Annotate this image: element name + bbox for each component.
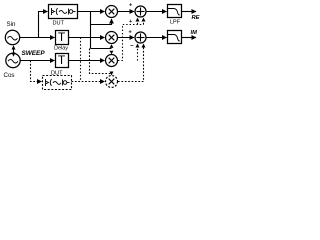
DUT U1 input connector icon — [52, 8, 58, 15]
svg-text:+: + — [129, 19, 132, 25]
svg-text:−: − — [130, 44, 134, 50]
wire branch up to DUT — [39, 12, 48, 38]
wire arrow into S1 bottom left — [137, 21, 139, 25]
wire arrow into S1 bottom right — [143, 21, 145, 25]
svg-text:LPF: LPF — [170, 20, 181, 26]
wire Sin to Delay T1 — [20, 37, 55, 39]
output arrow IM — [182, 37, 197, 39]
mixer M2 — [106, 32, 118, 44]
wire T2 out to mixer M3 — [69, 60, 105, 62]
delay T2 box — [56, 54, 69, 68]
svg-text:T: T — [58, 53, 66, 67]
wire Cos to Delay T2 — [20, 60, 54, 62]
wire stub to mixer M1 LO — [91, 19, 112, 25]
svg-text:DUT: DUT — [53, 21, 65, 27]
wire vertical distribution from DUT out — [90, 12, 92, 49]
wire S1 to LPF1 — [146, 11, 167, 13]
mixer M1 — [106, 6, 118, 18]
delay T1 box — [56, 31, 69, 45]
svg-text:+: + — [129, 3, 132, 9]
DUT box U2 (dashed) — [43, 76, 72, 90]
summer S2 — [135, 32, 146, 43]
wire dashed branch to mixer M4 LO — [90, 49, 111, 74]
svg-text:RE: RE — [192, 15, 201, 21]
DUT box U1 — [49, 5, 78, 19]
wire DUT2 out to mixer M4 (dashed) — [72, 81, 105, 83]
mixer M3 — [106, 55, 118, 67]
DUT U2 output connector icon — [63, 80, 70, 86]
svg-text:Cos: Cos — [4, 72, 15, 79]
DUT U1 sine icon — [59, 10, 67, 13]
DUT U2 sine icon — [53, 81, 61, 84]
wire M4 out dashed up — [118, 47, 144, 82]
wire arrow into M4 top — [110, 72, 114, 76]
wire S2 to LPF2 — [146, 37, 167, 39]
svg-text:DUT: DUT — [51, 71, 63, 77]
output arrow RE — [182, 11, 197, 13]
mixer M4 (dashed) — [106, 76, 118, 88]
wire T1 out to mixer M2 — [69, 37, 105, 39]
LPF2 box — [168, 31, 182, 44]
wire to mixers M2/M3 LO — [91, 48, 112, 50]
wire dashed branch T1 down — [80, 38, 82, 82]
wire DUT out to mixer M1 — [78, 11, 105, 13]
DUT U1 output connector icon — [69, 9, 76, 15]
wire M1 out to summer S1 — [118, 11, 135, 13]
svg-text:IM: IM — [191, 30, 198, 36]
DUT U2 input connector icon — [46, 79, 52, 86]
wire arrow into M2 bottom — [110, 44, 114, 48]
wire M2 out to summer S2 — [118, 37, 135, 39]
svg-text:Sin: Sin — [7, 21, 17, 28]
oscillator Cos — [6, 53, 20, 67]
svg-text:T: T — [58, 30, 66, 44]
svg-text:SWEEP: SWEEP — [22, 50, 46, 57]
sweep double arrow — [12, 45, 16, 57]
LPF1 box — [168, 5, 182, 18]
wire M3 out dashed up — [118, 25, 144, 61]
wire arrow into S2 bottom left (dashed riser) — [137, 47, 139, 61]
svg-text:+: + — [129, 30, 132, 36]
wire arrow into M3 top — [110, 51, 114, 55]
summer S1 — [135, 6, 146, 17]
oscillator Sin — [5, 30, 19, 44]
svg-text:Delay: Delay — [54, 46, 68, 52]
wire dashed branch Cos down to DUT2 — [31, 61, 42, 82]
